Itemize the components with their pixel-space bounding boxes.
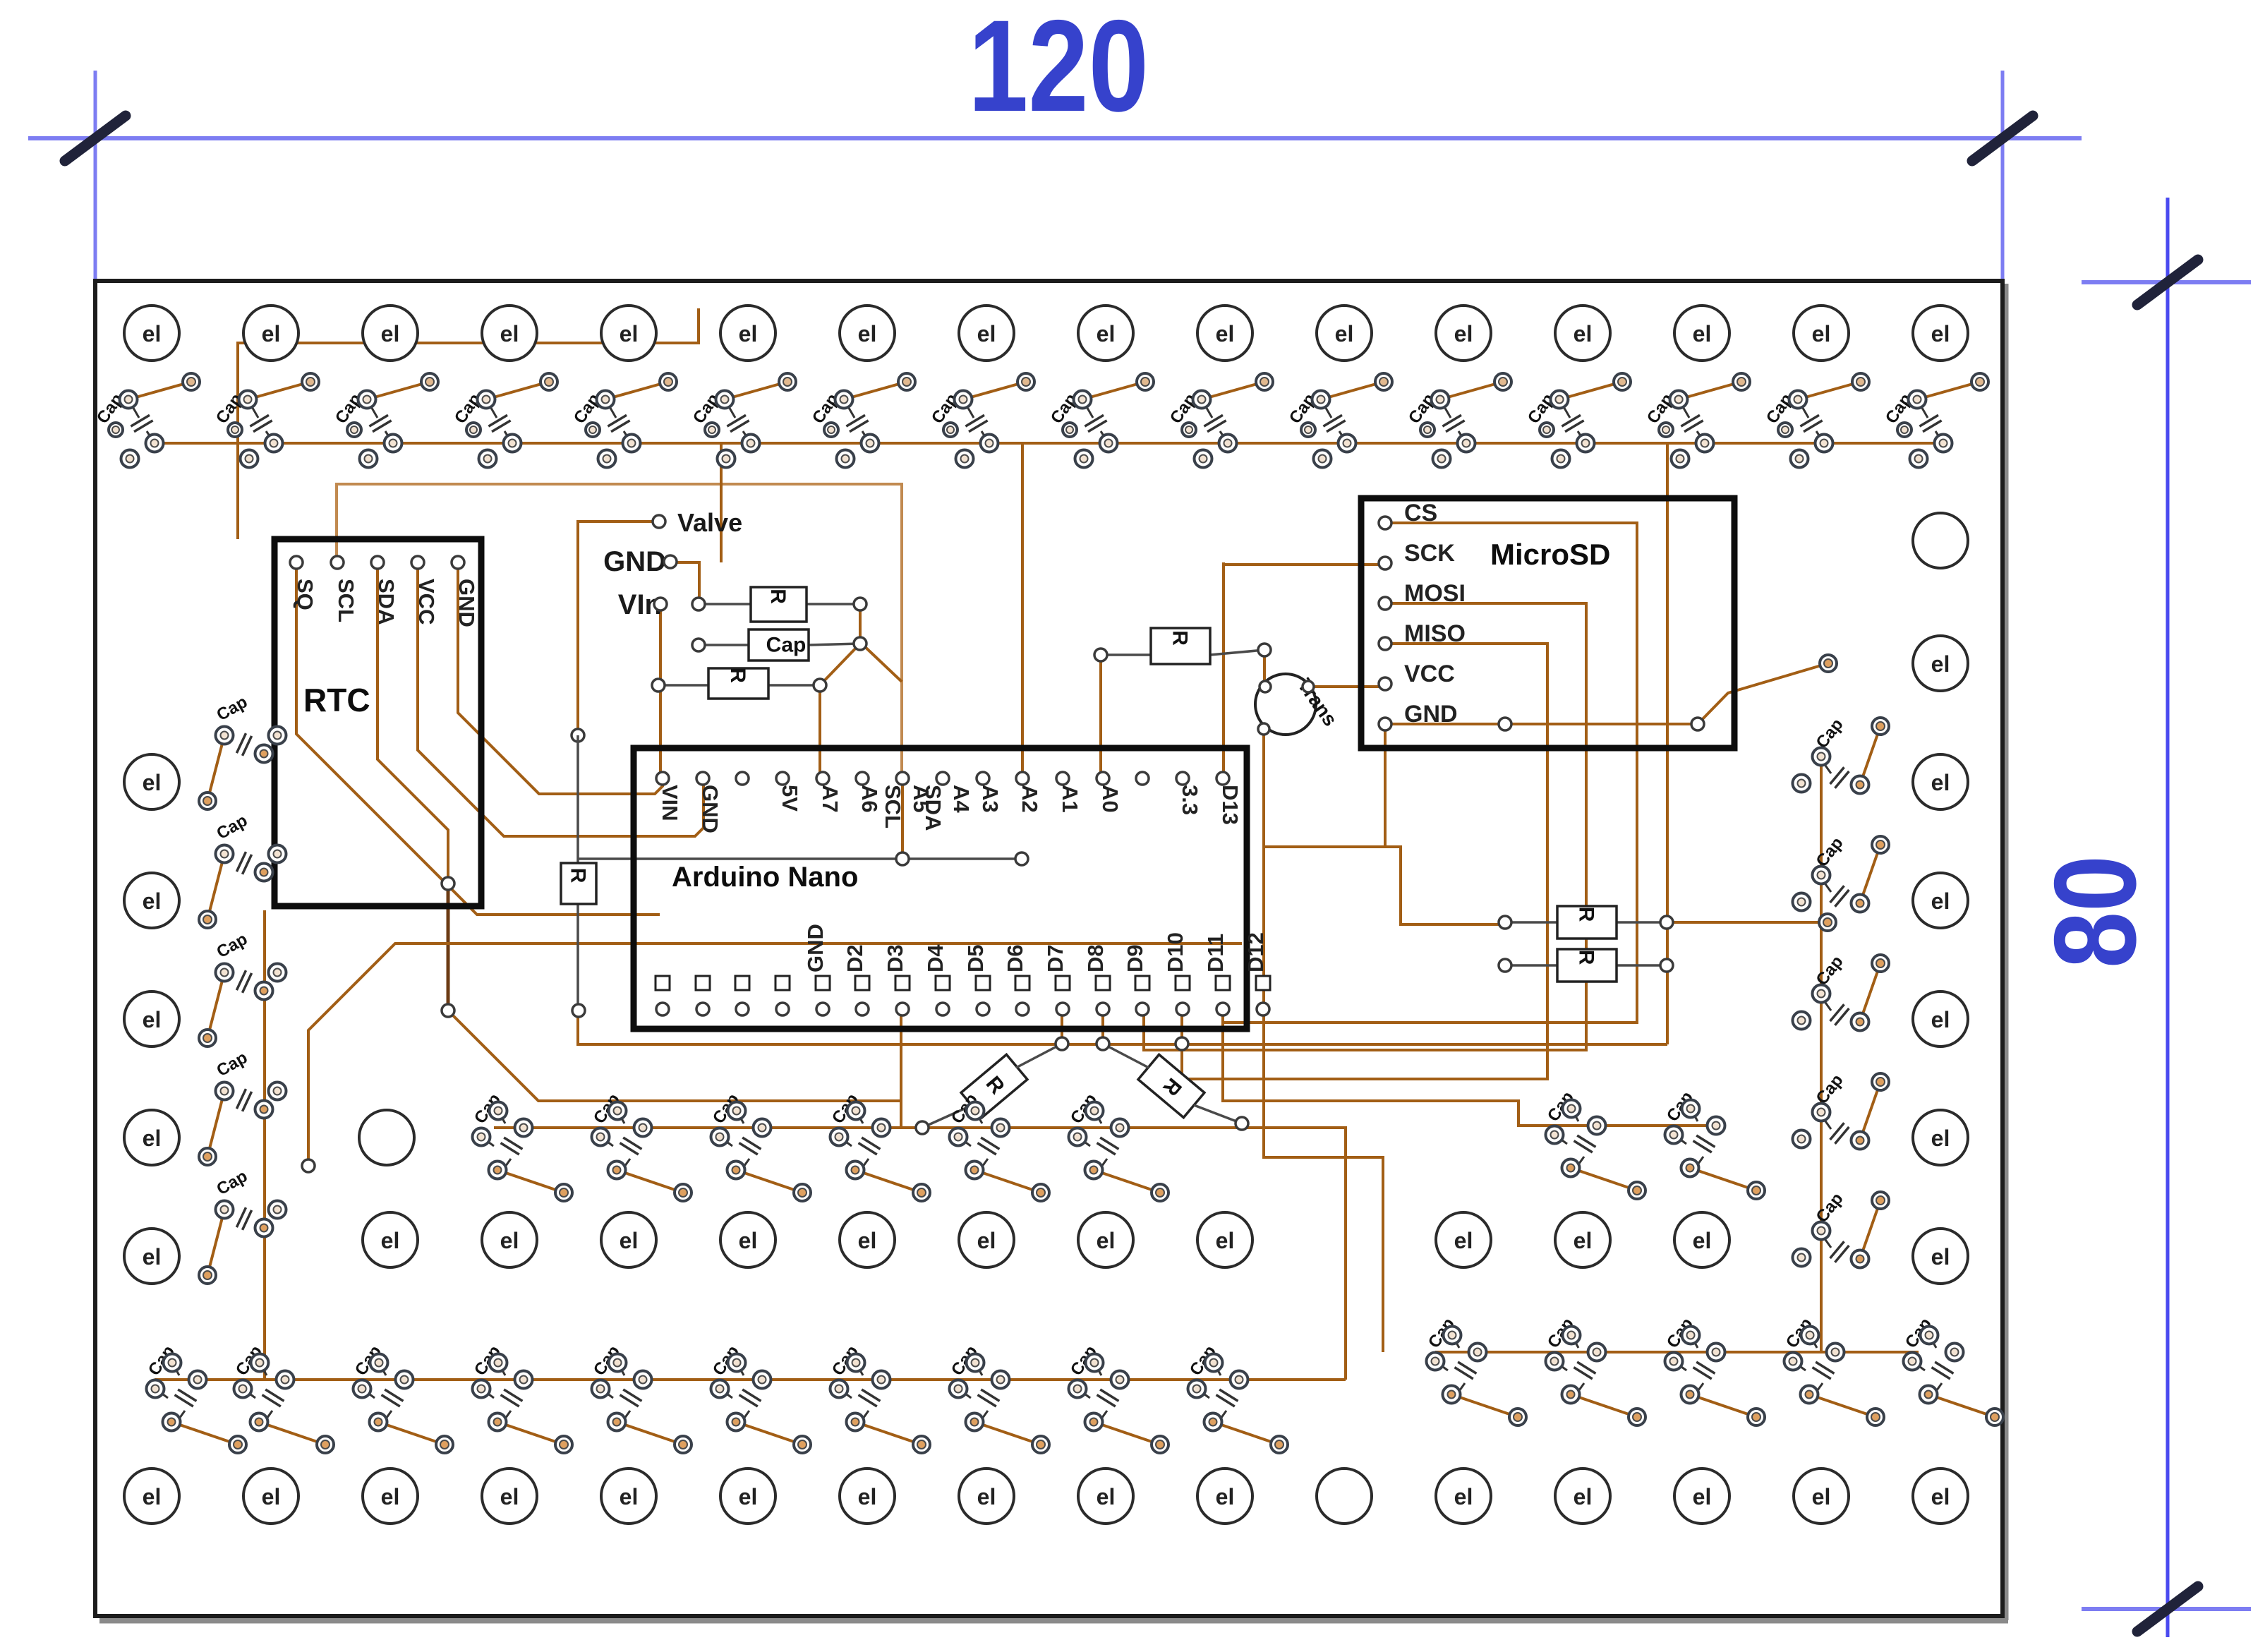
- via R2 right: [814, 679, 826, 692]
- svg-text:A7: A7: [818, 785, 842, 813]
- svg-text:el: el: [143, 1484, 162, 1509]
- MicroSD module U3: [1361, 498, 1734, 748]
- wire D6 stub: [1101, 1009, 1104, 1044]
- MicroSD pin SCK: [1379, 557, 1391, 569]
- electrode el right5: [1913, 1229, 1968, 1284]
- wire GND to R left pad: [1385, 847, 1505, 924]
- mount hole bottom: [1317, 1469, 1372, 1524]
- electrode el top12: [1555, 306, 1610, 361]
- svg-text:el: el: [1931, 1484, 1950, 1509]
- RTC pin SQ: [290, 556, 303, 569]
- Arduino top pin 7: [936, 772, 949, 785]
- Arduino bottom pin 6: [895, 976, 910, 990]
- svg-text:el: el: [143, 1244, 162, 1270]
- Q1 pin 3: [1258, 723, 1269, 735]
- lead R5 left: [1505, 964, 1557, 967]
- capacitor C_midbl2 (Cap): [351, 1342, 453, 1453]
- capacitor C_midbl0 (Cap): [145, 1342, 246, 1453]
- Arduino top pin 9: [1016, 772, 1029, 785]
- capacitor C_midm2 (Cap): [709, 1090, 811, 1201]
- svg-text:GND: GND: [454, 579, 479, 627]
- electrode el bottom14: [1794, 1469, 1849, 1524]
- capacitor C_top3 (Cap): [451, 373, 557, 468]
- electrode el mid8: [1436, 1212, 1491, 1267]
- wire riser to D13: [1222, 562, 1225, 778]
- via R7 end: [916, 1121, 929, 1134]
- Arduino top pin 2: [736, 772, 749, 785]
- capacitor C_midmr1 (Cap): [1663, 1088, 1765, 1199]
- capacitor C1 box: [749, 629, 809, 661]
- lead R4 left: [1505, 921, 1557, 924]
- svg-text:el: el: [500, 321, 519, 346]
- svg-text:el: el: [1812, 321, 1831, 346]
- Arduino top pin 5: [856, 772, 869, 785]
- electrode el top11: [1436, 306, 1491, 361]
- Arduino bottom pin 10: [1056, 976, 1070, 990]
- capacitor C_midbl5 (Cap): [709, 1342, 811, 1453]
- svg-text:GND: GND: [603, 546, 666, 577]
- via R3 left: [1094, 649, 1107, 661]
- wire bus drop: [1666, 443, 1669, 1044]
- svg-text:D5: D5: [963, 944, 988, 972]
- wire SD GND right: [1385, 663, 1828, 724]
- svg-text:el: el: [262, 1484, 281, 1509]
- Arduino bottom pin 15: [1256, 976, 1270, 990]
- Arduino top pin 13: [1176, 772, 1189, 785]
- Arduino top pin 14: [1216, 772, 1229, 785]
- capacitor C_right3 (Cap): [1793, 1071, 1890, 1149]
- via 5V rail b: [1015, 852, 1028, 865]
- lead R3 right: [1210, 650, 1264, 655]
- svg-text:el: el: [1931, 1244, 1950, 1270]
- svg-text:R: R: [726, 668, 749, 683]
- electrode el right1: [1913, 754, 1968, 809]
- electrode el top0: [124, 306, 179, 361]
- capacitor C_midbl1 (Cap): [232, 1342, 334, 1453]
- capacitor C_right1 (Cap): [1793, 833, 1890, 912]
- via 5V rail a: [896, 852, 909, 865]
- svg-text:D4: D4: [923, 944, 948, 972]
- svg-text:A6: A6: [857, 785, 882, 813]
- wire D11 to right mid bus: [1223, 1009, 1722, 1126]
- svg-text:el: el: [977, 1484, 996, 1509]
- wire R1-Cap link: [859, 604, 862, 644]
- svg-text:el: el: [1097, 1228, 1116, 1253]
- svg-text:el: el: [1216, 321, 1235, 346]
- wire bottom-right bus: [1435, 1351, 1919, 1353]
- svg-text:R: R: [1575, 950, 1598, 965]
- via R4 right: [1660, 916, 1673, 929]
- svg-text:CS: CS: [1404, 500, 1437, 526]
- electrode el left0: [124, 754, 179, 809]
- svg-text:el: el: [1693, 1484, 1712, 1509]
- electrode el top1: [243, 306, 298, 361]
- svg-text:el: el: [1812, 1484, 1831, 1509]
- svg-text:5V: 5V: [778, 785, 802, 812]
- svg-text:MicroSD: MicroSD: [1490, 538, 1610, 571]
- wire R left riser: [1099, 655, 1102, 778]
- svg-text:el: el: [1931, 888, 1950, 914]
- Arduino bottom pin 7: [936, 976, 950, 990]
- capacitor C_midbl3 (Cap): [471, 1342, 572, 1453]
- electrode el mid2: [601, 1212, 656, 1267]
- electrode el left4: [124, 1229, 179, 1284]
- electrode el top2: [363, 306, 418, 361]
- wire 5V pad riser: [901, 778, 904, 857]
- svg-text:A2: A2: [1017, 785, 1042, 813]
- lead R1 right: [807, 603, 860, 605]
- lead R2 left: [658, 684, 708, 687]
- resistor R2: [708, 668, 768, 699]
- lead Cap left: [699, 644, 749, 646]
- wire D4 riser to mid bus: [900, 1009, 902, 1128]
- wire bottom-left bus: [155, 1378, 1346, 1381]
- svg-text:MISO: MISO: [1404, 620, 1466, 647]
- svg-text:Arduino Nano: Arduino Nano: [672, 862, 858, 893]
- svg-text:Cap: Cap: [766, 633, 807, 656]
- capacitor C_left3 (Cap): [199, 1048, 286, 1165]
- capacitor C_right2 (Cap): [1793, 952, 1890, 1030]
- via R5 left: [1499, 959, 1511, 972]
- svg-text:el: el: [739, 1484, 758, 1509]
- wire SD GND down: [1264, 724, 1385, 847]
- svg-text:RTC: RTC: [303, 682, 370, 718]
- electrode el bottom11: [1436, 1469, 1491, 1524]
- capacitor C_right0 (Cap): [1793, 715, 1890, 793]
- svg-text:SDA: SDA: [374, 579, 399, 625]
- svg-text:el: el: [739, 1228, 758, 1253]
- wire RTC SQ fan: [296, 562, 660, 915]
- Arduino bottom pin 13: [1176, 976, 1190, 990]
- RTC pin SDA: [371, 556, 384, 569]
- Q1 pin 1: [1260, 681, 1271, 692]
- wire RTC SDA fan: [377, 562, 448, 884]
- electrode el top4: [601, 306, 656, 361]
- lead R7 a: [1016, 1044, 1062, 1068]
- svg-text:R: R: [766, 589, 790, 604]
- Arduino bottom pin 9: [1015, 976, 1029, 990]
- via R1 right: [854, 598, 866, 610]
- wire bus drop to GND line: [720, 443, 723, 562]
- svg-text:R: R: [1168, 630, 1192, 646]
- wire SCL to A5: [337, 484, 902, 778]
- Arduino bottom pin 1: [696, 976, 710, 990]
- electrode el top7: [959, 306, 1014, 361]
- lead R4 right: [1617, 921, 1667, 924]
- MicroSD pin VCC: [1379, 677, 1391, 690]
- electrode el bottom4: [601, 1469, 656, 1524]
- electrode el top5: [720, 306, 775, 361]
- capacitor C_midbr1 (Cap): [1544, 1315, 1645, 1425]
- Arduino bottom pin 0: [656, 976, 670, 990]
- svg-text:SDA: SDA: [921, 785, 946, 831]
- electrode el top13: [1674, 306, 1729, 361]
- capacitor C_midm4 (Cap): [948, 1090, 1049, 1201]
- svg-text:el: el: [858, 1228, 877, 1253]
- svg-text:R: R: [1575, 907, 1598, 922]
- via Cap left: [692, 639, 705, 651]
- via D5 stub: [1056, 1037, 1068, 1050]
- electrode el mid6: [1078, 1212, 1133, 1267]
- electrode el right2: [1913, 873, 1968, 928]
- capacitor C_midm5 (Cap): [1067, 1090, 1168, 1201]
- svg-text:GND: GND: [1404, 701, 1458, 728]
- electrode el bottom1: [243, 1469, 298, 1524]
- wire resistor to transistor: [1263, 650, 1266, 687]
- svg-text:D12: D12: [1243, 932, 1268, 972]
- electrode el bottom7: [959, 1469, 1014, 1524]
- svg-text:el: el: [977, 1228, 996, 1253]
- electrode el top9: [1197, 306, 1252, 361]
- capacitor C_midbl4 (Cap): [590, 1342, 691, 1453]
- RTC pin GND: [452, 556, 464, 569]
- svg-text:GND: GND: [698, 785, 723, 833]
- svg-text:MOSI: MOSI: [1404, 580, 1466, 607]
- via right of R: [1819, 914, 1836, 931]
- capacitor C_midmr0 (Cap): [1544, 1088, 1645, 1199]
- via R6 top: [572, 729, 584, 742]
- svg-text:R: R: [567, 868, 590, 884]
- Arduino top pin 8: [977, 772, 989, 785]
- electrode el top3: [482, 306, 537, 361]
- via R8 end: [1236, 1117, 1248, 1130]
- capacitor C_left0 (Cap): [199, 692, 286, 809]
- lead R5 right: [1617, 964, 1667, 967]
- capacitor C_midbr2 (Cap): [1663, 1315, 1765, 1425]
- capacitor C_left4 (Cap): [199, 1166, 286, 1284]
- Arduino top pin 3: [776, 772, 789, 785]
- wire transistor emitter run: [1264, 729, 1383, 1352]
- resistor R6 vertical: [561, 863, 596, 904]
- electrode el mid10: [1674, 1212, 1729, 1267]
- dimension line 80 (right): [2030, 198, 2251, 1637]
- svg-text:VCC: VCC: [414, 579, 439, 625]
- wire SDA to D4 riser: [448, 1011, 901, 1101]
- svg-text:SCK: SCK: [1404, 540, 1455, 567]
- via GND line a: [1499, 718, 1511, 730]
- capacitor C_midbr0 (Cap): [1425, 1315, 1526, 1425]
- electrode el mid4: [840, 1212, 895, 1267]
- wire D5 stub: [1061, 1009, 1063, 1044]
- capacitor C_top2 (Cap): [332, 373, 438, 468]
- capacitor C_top13 (Cap): [1643, 373, 1750, 468]
- via R1 left: [692, 598, 705, 610]
- svg-text:el: el: [381, 1228, 400, 1253]
- svg-text:D9: D9: [1123, 944, 1147, 972]
- svg-text:el: el: [1931, 770, 1950, 795]
- lead 5V rail gray: [579, 857, 1022, 860]
- electrode el left1: [124, 873, 179, 928]
- via Cap right: [854, 637, 866, 650]
- svg-text:A4: A4: [949, 785, 974, 813]
- svg-text:A0: A0: [1098, 785, 1123, 813]
- wire MOSI to D6: [1144, 603, 1586, 1050]
- svg-text:el: el: [381, 321, 400, 346]
- electrode el mid7: [1197, 1212, 1252, 1267]
- wire RTC VCC fan: [418, 562, 703, 836]
- via D6 stub: [1097, 1037, 1109, 1050]
- Arduino bottom pin 4: [816, 976, 830, 990]
- wire GND to R1: [666, 562, 699, 604]
- svg-text:el: el: [858, 1484, 877, 1509]
- RTC module U2: [274, 539, 481, 906]
- svg-text:D10: D10: [1163, 932, 1188, 972]
- RTC pin SCL: [331, 556, 344, 569]
- svg-text:80: 80: [2030, 855, 2160, 968]
- svg-text:SQ: SQ: [293, 579, 318, 610]
- via A3 run end: [302, 1159, 315, 1172]
- electrode el mid0: [363, 1212, 418, 1267]
- electrode el bottom3: [482, 1469, 537, 1524]
- svg-text:el: el: [143, 770, 162, 795]
- electrode el top8: [1078, 306, 1133, 361]
- via R2 left: [652, 679, 665, 692]
- svg-text:el: el: [1693, 321, 1712, 346]
- wire MISO to D7: [1182, 644, 1547, 1079]
- capacitor C_midbl6 (Cap): [828, 1342, 930, 1453]
- svg-text:el: el: [143, 321, 162, 346]
- electrode el top15: [1913, 306, 1968, 361]
- MicroSD pin MISO: [1379, 637, 1391, 650]
- svg-text:el: el: [1931, 1126, 1950, 1151]
- Arduino bottom pin 8: [976, 976, 990, 990]
- electrode el left3: [124, 1110, 179, 1165]
- wire R2 to A7: [819, 685, 821, 778]
- Arduino top pin 6: [896, 772, 909, 785]
- Arduino top pin 4: [816, 772, 829, 785]
- electrode el bottom13: [1674, 1469, 1729, 1524]
- wire A3 long run: [308, 943, 1242, 1166]
- Arduino bottom pin 5: [855, 976, 869, 990]
- svg-text:D8: D8: [1083, 944, 1108, 972]
- svg-text:VIN: VIN: [658, 785, 682, 821]
- capacitor C_top12 (Cap): [1524, 373, 1631, 468]
- svg-text:el: el: [381, 1484, 400, 1509]
- capacitor C_top14 (Cap): [1763, 373, 1869, 468]
- lead R8 a: [1103, 1044, 1149, 1068]
- svg-text:el: el: [1454, 1484, 1473, 1509]
- svg-text:D3: D3: [883, 944, 907, 972]
- electrode el bottom5: [720, 1469, 775, 1524]
- wire top-left loop: [238, 308, 699, 539]
- via R3 right: [1258, 644, 1271, 656]
- RTC pin VCC: [411, 556, 424, 569]
- MicroSD pin GND: [1379, 718, 1391, 730]
- electrode el bottom2: [363, 1469, 418, 1524]
- via R5 right: [1660, 959, 1673, 972]
- resistor R7 diagonal: [961, 1054, 1027, 1117]
- wire top bus: [155, 442, 1940, 445]
- svg-text:el: el: [143, 888, 162, 914]
- capacitor C_midm1 (Cap): [590, 1090, 691, 1201]
- electrode el bottom15: [1913, 1469, 1968, 1524]
- capacitor C_midbl7 (Cap): [948, 1342, 1049, 1453]
- capacitor C_midbl8 (Cap): [1067, 1342, 1168, 1453]
- Arduino bottom pin 2: [735, 976, 749, 990]
- via R6 bottom: [572, 1004, 585, 1017]
- capacitor C_top0 (Cap): [93, 373, 200, 468]
- wire RTC GND fan: [458, 562, 663, 794]
- Arduino Nano module U1: [634, 748, 1247, 1029]
- svg-text:GND: GND: [803, 924, 828, 972]
- svg-text:el: el: [1574, 1484, 1593, 1509]
- electrode el right0: [1913, 636, 1968, 691]
- svg-text:el: el: [620, 1228, 639, 1253]
- capacitor C_top15 (Cap): [1882, 373, 1988, 468]
- electrode el bottom0: [124, 1469, 179, 1524]
- via below RTC: [442, 1004, 454, 1017]
- electrode el mid3: [720, 1212, 775, 1267]
- Arduino top pin 0: [656, 772, 669, 785]
- svg-text:el: el: [143, 1007, 162, 1032]
- svg-text:SCL: SCL: [334, 579, 358, 622]
- capacitor C_midm0 (Cap): [471, 1090, 572, 1201]
- mount hole right: [1913, 513, 1968, 568]
- electrode el bottom8: [1078, 1469, 1133, 1524]
- svg-text:el: el: [1931, 651, 1950, 677]
- resistor R3: [1151, 628, 1210, 664]
- svg-text:el: el: [977, 321, 996, 346]
- GND pad: [664, 555, 677, 568]
- lead Cap right: [809, 644, 860, 645]
- Arduino bottom pin 3: [775, 976, 790, 990]
- capacitor C_top4 (Cap): [570, 373, 677, 468]
- capacitor C_right4 (Cap): [1793, 1189, 1890, 1267]
- capacitor C_left2 (Cap): [199, 929, 286, 1047]
- resistor R1: [751, 587, 807, 622]
- svg-text:D7: D7: [1043, 944, 1068, 972]
- Arduino bottom pin 12: [1135, 976, 1149, 990]
- wire SCK run: [1224, 563, 1385, 566]
- capacitor C_top7 (Cap): [928, 373, 1034, 468]
- capacitor C_top6 (Cap): [809, 373, 915, 468]
- wire Cap diag: [862, 644, 902, 682]
- via R4 left: [1499, 916, 1511, 929]
- svg-text:el: el: [620, 1484, 639, 1509]
- wire D8 stub: [1180, 1009, 1183, 1044]
- lead R1 left: [699, 603, 751, 605]
- MicroSD pin CS: [1379, 517, 1391, 529]
- wire VIn riser: [659, 604, 662, 778]
- svg-text:D6: D6: [1003, 944, 1027, 972]
- resistor R4: [1557, 906, 1617, 939]
- svg-text:el: el: [1097, 1484, 1116, 1509]
- electrode el right4: [1913, 1110, 1968, 1165]
- electrode el mid5: [959, 1212, 1014, 1267]
- PCB board outline: [95, 281, 2008, 1620]
- capacitor C_midbr3 (Cap): [1782, 1315, 1884, 1425]
- via D8 stub: [1176, 1037, 1188, 1050]
- electrode el top10: [1317, 306, 1372, 361]
- svg-text:el: el: [262, 321, 281, 346]
- svg-text:el: el: [1931, 1007, 1950, 1032]
- svg-text:A1: A1: [1058, 785, 1082, 813]
- svg-text:el: el: [1454, 1228, 1473, 1253]
- dimension line 120 (top): [28, 0, 2082, 282]
- electrode el bottom6: [840, 1469, 895, 1524]
- electrode el mid9: [1555, 1212, 1610, 1267]
- capacitor C_left1 (Cap): [199, 811, 286, 928]
- svg-text:el: el: [1931, 321, 1950, 346]
- resistor R5: [1557, 949, 1617, 982]
- Q1 pin 2: [1303, 681, 1314, 692]
- electrode el mid1: [482, 1212, 537, 1267]
- lead R7 b: [922, 1105, 972, 1128]
- via GND line b: [1691, 718, 1704, 730]
- electrode el bottom9: [1197, 1469, 1252, 1524]
- svg-text:SCL: SCL: [881, 785, 905, 828]
- svg-text:el: el: [1574, 321, 1593, 346]
